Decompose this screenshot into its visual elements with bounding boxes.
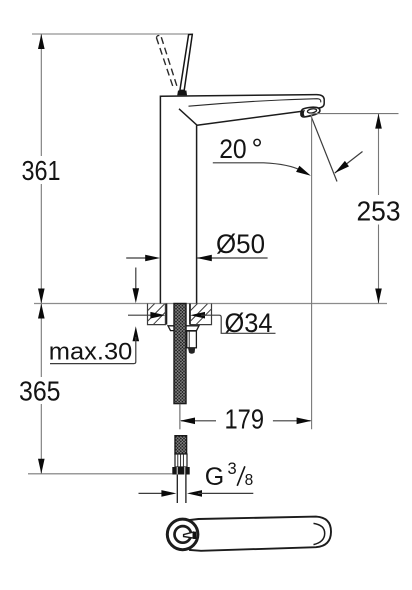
dimension 179 bbox=[181, 420, 216, 422]
wire vertical from spout tip bbox=[311, 115, 313, 429]
lever base cap bbox=[177, 91, 187, 96]
svg-text:179: 179 bbox=[225, 404, 265, 435]
wire tip extension right bbox=[309, 113, 399, 115]
faucet spout underside bbox=[197, 111, 303, 125]
faucet bend corner line bbox=[179, 109, 197, 125]
wire baseline countertop bbox=[34, 303, 387, 305]
faucet inner highlight line bbox=[189, 99, 321, 107]
dimension 253 line bbox=[378, 114, 380, 195]
svg-text:3: 3 bbox=[228, 460, 237, 478]
countertop section right block bbox=[190, 304, 211, 325]
dimension diameter 34 bbox=[128, 314, 152, 316]
countertop section left block bbox=[148, 304, 166, 325]
svg-text:253: 253 bbox=[357, 195, 401, 226]
hex nut bbox=[172, 467, 189, 475]
connection tube G3/8 bbox=[176, 475, 178, 504]
handle knob outer circle bbox=[167, 519, 198, 550]
angle line 20deg from vertical bbox=[311, 115, 337, 181]
mounting stud bbox=[187, 331, 197, 348]
mounting sleeve in deck bbox=[166, 304, 168, 325]
wire centerline between hose parts bbox=[179, 404, 181, 430]
faucet body outline bbox=[160, 95, 324, 304]
dimension max.30 upper arrow bbox=[135, 268, 137, 292]
svg-text:max.30: max.30 bbox=[49, 339, 133, 366]
dimension 361 line bbox=[40, 34, 42, 156]
hose fitting bbox=[175, 454, 187, 467]
faucet front edge bbox=[196, 125, 198, 303]
arrow on angle line with tail bbox=[335, 152, 363, 174]
dimension G3/8 arrows bbox=[139, 492, 166, 494]
threaded shank through deck down to hose bbox=[174, 304, 186, 404]
dimension 365 line bbox=[40, 304, 42, 378]
flanged washer under deck bbox=[168, 326, 199, 331]
wire top extension line bbox=[32, 33, 192, 35]
aerator at spout tip bbox=[301, 107, 320, 117]
svg-text:361: 361 bbox=[22, 155, 61, 186]
svg-text:Ø34: Ø34 bbox=[225, 308, 273, 338]
svg-text:8: 8 bbox=[245, 472, 254, 489]
handle knob keyway notch bbox=[184, 532, 194, 538]
svg-text:Ø50: Ø50 bbox=[216, 229, 265, 259]
lever solid position bbox=[180, 34, 192, 90]
handle side view body bbox=[190, 517, 331, 551]
handle knob inner circle bbox=[175, 526, 192, 543]
dimension max.30 lower arrow and leader bbox=[133, 326, 140, 341]
svg-text:°: ° bbox=[252, 133, 263, 164]
svg-text:365: 365 bbox=[19, 376, 61, 407]
wire bottom extension line bbox=[28, 473, 172, 475]
lever dashed position bbox=[156, 38, 173, 90]
dimension diameter 50 bbox=[126, 257, 149, 259]
svg-text:G: G bbox=[205, 463, 224, 491]
handle inner cap arc bbox=[314, 523, 325, 544]
flexible hose upper bbox=[175, 436, 187, 454]
svg-text:20: 20 bbox=[219, 134, 247, 164]
